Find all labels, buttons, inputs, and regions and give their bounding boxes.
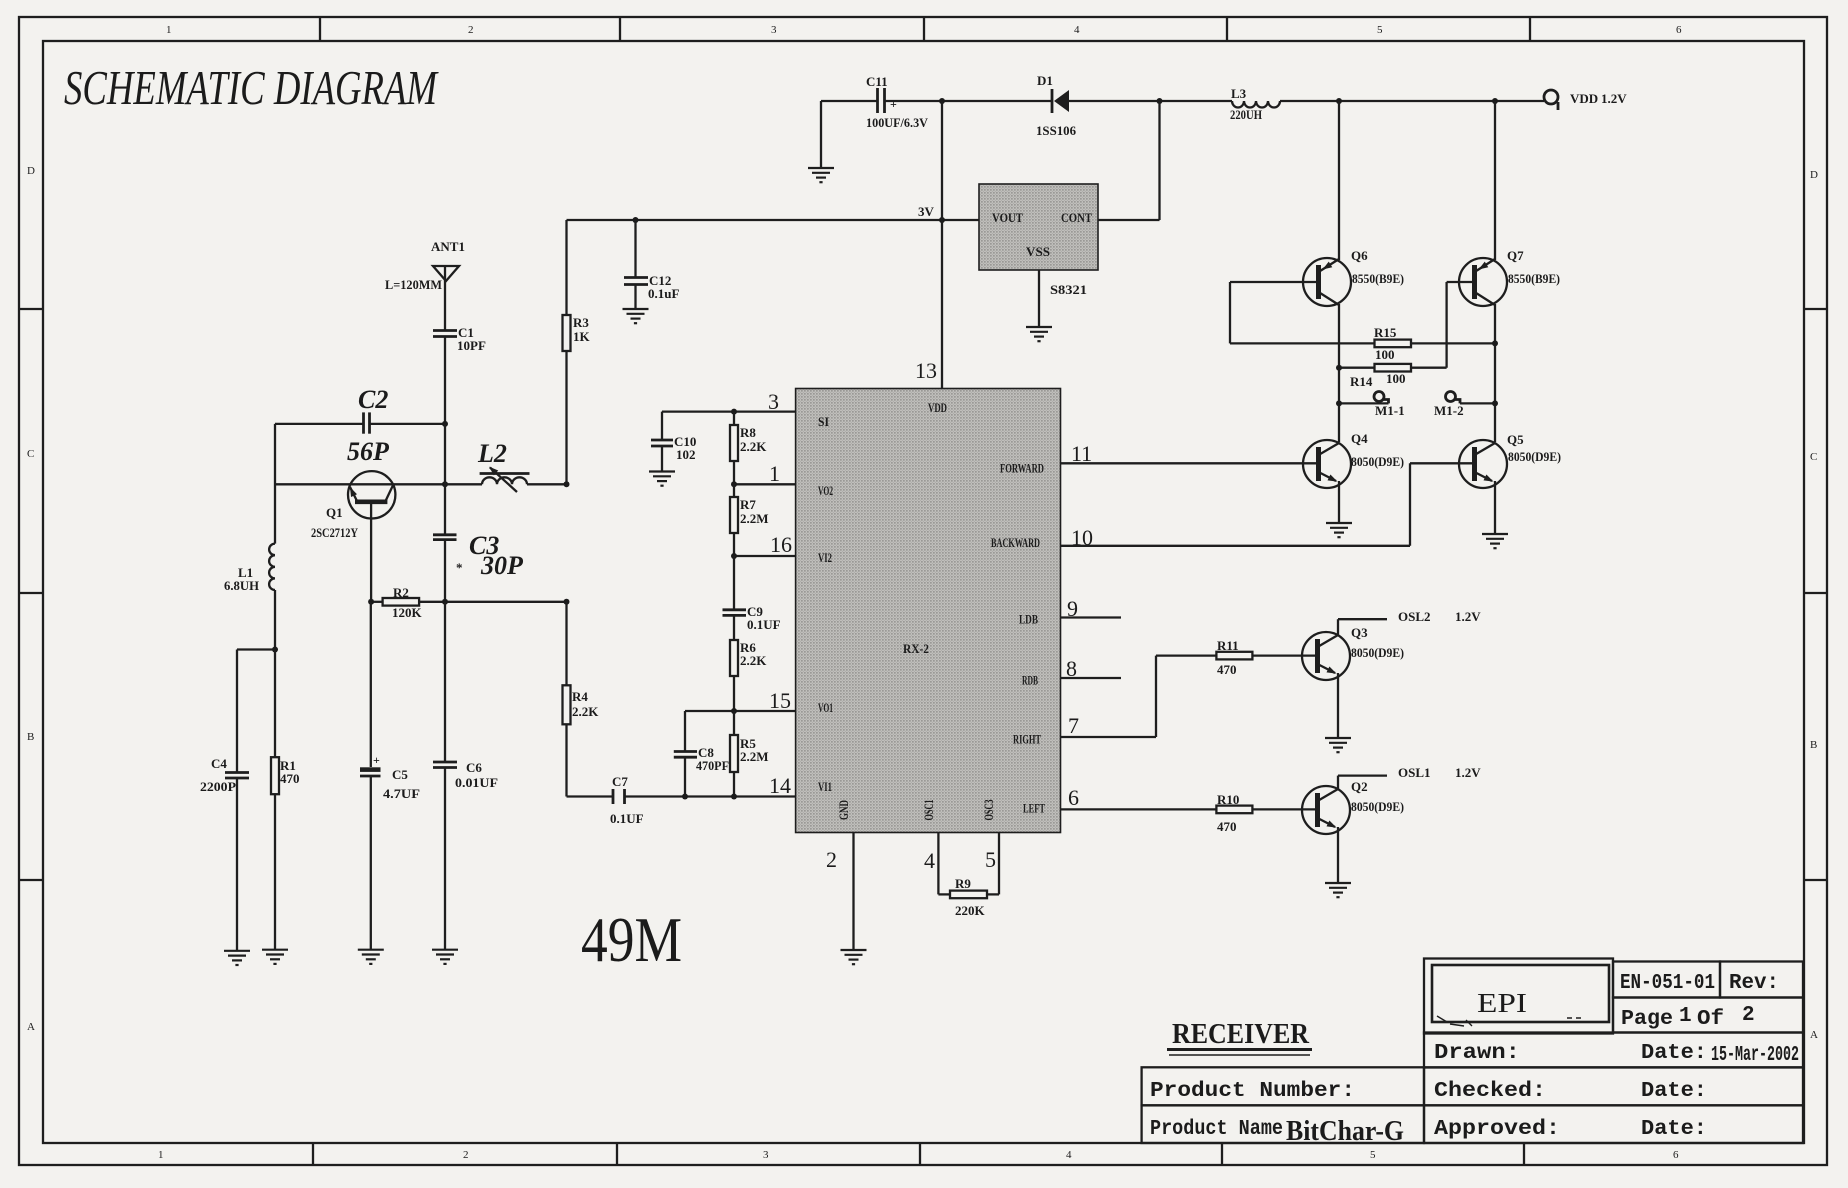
svg-text:A: A <box>1810 1029 1818 1041</box>
svg-text:R14: R14 <box>1350 374 1373 389</box>
resistor R11 470 <box>1156 638 1318 677</box>
terminal M1-2 <box>1434 392 1464 419</box>
wire OSC1 pin 4 <box>924 833 938 895</box>
wire VO2 pin 1 <box>734 461 796 486</box>
svg-text:FORWARD: FORWARD <box>1000 462 1044 476</box>
ground (pin 2) <box>841 950 867 964</box>
junction pin3 / R8 <box>731 409 737 415</box>
wire SI pin 3 <box>662 389 796 414</box>
wire Q2 collector to OSL1 <box>1338 765 1481 790</box>
svg-text:2: 2 <box>1742 1004 1755 1027</box>
svg-text:2: 2 <box>468 24 474 36</box>
svg-text:VDD: VDD <box>1570 91 1598 106</box>
svg-text:RX-2: RX-2 <box>903 641 929 656</box>
junction L2 / R3 <box>564 481 570 487</box>
wire RDB pin 8 stub <box>1061 656 1122 681</box>
svg-text:B: B <box>27 731 34 743</box>
svg-text:2SC2712Y: 2SC2712Y <box>311 525 358 540</box>
svg-text:B: B <box>1810 739 1817 751</box>
svg-text:R10: R10 <box>1217 792 1239 807</box>
page of <box>1621 1004 1755 1031</box>
svg-text:LDB: LDB <box>1019 613 1038 627</box>
ground (Q3 emitter) <box>1325 738 1351 752</box>
inductor L2 (variable) <box>445 439 567 492</box>
wire VI1 pin 14 <box>625 773 796 798</box>
svg-text:VSS: VSS <box>1026 245 1050 259</box>
svg-text:8550(B9E): 8550(B9E) <box>1508 271 1560 286</box>
svg-text:RDB: RDB <box>1022 674 1038 688</box>
resistor R14 100 <box>1339 364 1447 389</box>
wire Q6 collector down <box>1338 304 1340 442</box>
wire FORWARD pin 11 <box>1061 441 1319 466</box>
wire 3V node <box>567 204 980 220</box>
junction R2 / Q1 base <box>368 599 374 605</box>
svg-text:L3: L3 <box>1231 86 1247 101</box>
svg-text:0.1uF: 0.1uF <box>648 286 679 301</box>
svg-text:1: 1 <box>166 24 172 36</box>
svg-text:Drawn:: Drawn: <box>1434 1042 1520 1065</box>
svg-text:C6: C6 <box>466 760 482 775</box>
svg-text:Checked:: Checked: <box>1434 1080 1546 1103</box>
resistor R1 470 <box>271 650 300 950</box>
svg-text:100: 100 <box>1375 347 1395 362</box>
svg-text:0.01UF: 0.01UF <box>455 775 498 790</box>
svg-text:1K: 1K <box>573 329 591 344</box>
ground (C5) <box>358 950 384 964</box>
terminal M1-1 <box>1374 392 1405 419</box>
svg-text:Q4: Q4 <box>1351 431 1368 446</box>
capacitor C10 102 <box>651 412 696 472</box>
svg-text:L2: L2 <box>477 439 507 468</box>
svg-text:0.1UF: 0.1UF <box>747 617 781 632</box>
inductor L1 6.8UH <box>224 424 275 650</box>
svg-text:11: 11 <box>1071 441 1092 466</box>
transistor Q6 8550(B9E) <box>1303 248 1404 306</box>
antenna ANT1 <box>385 239 465 330</box>
svg-text:1SS106: 1SS106 <box>1036 123 1076 138</box>
svg-text:R7: R7 <box>740 497 756 512</box>
svg-text:4: 4 <box>1074 24 1080 36</box>
svg-text:8050(D9E): 8050(D9E) <box>1351 799 1404 814</box>
svg-text:120K: 120K <box>392 605 423 620</box>
svg-text:VO1: VO1 <box>818 701 833 715</box>
transistor Q4 8050(D9E) <box>1303 431 1404 523</box>
junction R2 wire / C3-C6 line <box>442 599 448 605</box>
svg-text:1.2V: 1.2V <box>1455 765 1481 780</box>
svg-text:CONT: CONT <box>1061 211 1093 225</box>
resistor R3 1K <box>563 220 591 484</box>
transistor Q5 8050(D9E) <box>1459 432 1561 534</box>
svg-text:470PF: 470PF <box>696 758 729 773</box>
svg-text:1: 1 <box>158 1149 164 1161</box>
svg-text:Q2: Q2 <box>1351 779 1368 794</box>
svg-text:C: C <box>27 448 34 460</box>
transistor Q2 8050(D9E) <box>1302 779 1404 883</box>
svg-text:Date:: Date: <box>1641 1042 1707 1065</box>
svg-text:LEFT: LEFT <box>1023 802 1045 816</box>
wire VSS to ground <box>1038 270 1040 327</box>
svg-text:Q5: Q5 <box>1507 432 1524 447</box>
wire Q7 collector down <box>1494 304 1496 442</box>
svg-text:C11: C11 <box>866 74 888 89</box>
svg-text:SCHEMATIC DIAGRAM: SCHEMATIC DIAGRAM <box>64 60 439 115</box>
resistor R10 470 <box>1061 792 1318 834</box>
svg-text:8050(D9E): 8050(D9E) <box>1351 454 1404 469</box>
wire rail to RX-2 pin 13 <box>915 101 942 389</box>
svg-text:R4: R4 <box>572 689 588 704</box>
svg-text:R8: R8 <box>740 425 756 440</box>
svg-text:Page: Page <box>1621 1008 1673 1031</box>
svg-text:2.2K: 2.2K <box>572 704 599 719</box>
svg-text:A: A <box>27 1021 35 1033</box>
svg-text:470: 470 <box>280 771 300 786</box>
svg-text:13: 13 <box>915 358 937 383</box>
svg-text:OSL2: OSL2 <box>1398 609 1431 624</box>
product name row <box>1150 1115 1404 1147</box>
wire RIGHT pin 7 <box>1061 656 1157 738</box>
svg-text:7: 7 <box>1068 713 1079 738</box>
wire Q6 emitter to rail <box>1338 101 1340 260</box>
junction pin15 / R6 R5 <box>731 708 737 714</box>
capacitor C12 0.1uF <box>624 220 679 309</box>
svg-text:15-Mar-2002: 15-Mar-2002 <box>1711 1044 1799 1067</box>
junction M1-2 wire <box>1492 400 1498 406</box>
junction pin16 / R7 C9 <box>731 553 737 559</box>
svg-text:Q1: Q1 <box>326 505 343 520</box>
svg-text:VI2: VI2 <box>818 551 832 565</box>
svg-text:S8321: S8321 <box>1050 282 1087 297</box>
wire M1-1 to Q6 collector <box>1339 402 1389 404</box>
junction 3V / VDD-line <box>939 217 945 223</box>
svg-text:10: 10 <box>1071 525 1093 550</box>
ground (Q2 emitter) <box>1325 883 1351 897</box>
svg-text:C: C <box>1810 451 1817 463</box>
resistor R5 2.2M <box>730 711 769 797</box>
svg-text:2.2K: 2.2K <box>740 653 767 668</box>
svg-text:8050(D9E): 8050(D9E) <box>1351 645 1404 660</box>
wire OSC3 pin 5 <box>985 833 999 895</box>
svg-text:Rev:: Rev: <box>1729 972 1779 995</box>
junction pin14 / R5 <box>731 794 737 800</box>
svg-text:8550(B9E): 8550(B9E) <box>1352 271 1404 286</box>
capacitor C9 0.1UF <box>723 556 781 640</box>
ground (C4) <box>224 951 250 965</box>
RECEIVER heading <box>1167 1018 1312 1055</box>
IC U1 RX-2 <box>796 389 1061 833</box>
svg-text:1: 1 <box>769 461 780 486</box>
svg-text:SI: SI <box>818 415 829 429</box>
wire Q3 collector to OSL2 <box>1338 609 1481 636</box>
svg-text:C2: C2 <box>358 385 388 414</box>
svg-text:8050(D9E): 8050(D9E) <box>1508 449 1561 464</box>
svg-text:OSC1: OSC1 <box>922 800 936 821</box>
svg-text:Q6: Q6 <box>1351 248 1368 263</box>
ground (R1) <box>262 950 288 964</box>
wire CONT to rail <box>1098 101 1160 220</box>
svg-text:220K: 220K <box>955 903 986 918</box>
svg-text:L=120MM: L=120MM <box>385 277 442 292</box>
svg-text:8: 8 <box>1066 656 1077 681</box>
title block <box>1142 959 1803 1144</box>
ground (Q5 emitter) <box>1482 534 1508 548</box>
svg-text:3: 3 <box>763 1149 769 1161</box>
svg-text:RECEIVER: RECEIVER <box>1172 1018 1310 1050</box>
svg-text:6: 6 <box>1068 785 1079 810</box>
svg-text:16: 16 <box>770 532 792 557</box>
junction rail / pin13 <box>939 98 945 104</box>
svg-text:4: 4 <box>1066 1149 1072 1161</box>
wire VO1 pin 15 <box>685 688 796 713</box>
wire M1-2 to Q7 collector <box>1460 402 1495 404</box>
transistor Q7 8550(B9E) <box>1459 248 1560 306</box>
checked row <box>1434 1080 1707 1103</box>
ground (S8321 VSS) <box>1026 327 1052 341</box>
svg-text:R9: R9 <box>955 876 971 891</box>
approved row <box>1434 1118 1707 1141</box>
junction R14 / Q6 collector <box>1336 365 1342 371</box>
svg-text:1: 1 <box>1679 1005 1692 1028</box>
junction R2 wire / R3-R4 line <box>564 599 570 605</box>
resistor R15 100 <box>1374 325 1495 362</box>
svg-text:VOUT: VOUT <box>992 211 1024 225</box>
capacitor C3 30P <box>433 424 524 602</box>
svg-text:6.8UH: 6.8UH <box>224 578 259 593</box>
inductor L3 220UH <box>1230 86 1280 122</box>
svg-text:EPI: EPI <box>1477 988 1527 1018</box>
junction pin1 / R8 R7 <box>731 481 737 487</box>
capacitor C11 100UF/6.3V <box>866 74 929 130</box>
svg-text:470: 470 <box>1217 662 1237 677</box>
wire GND pin 2 <box>826 833 854 951</box>
capacitor C2 56P <box>275 385 445 466</box>
svg-text:30P: 30P <box>480 551 524 580</box>
svg-text:Product Name: Product Name <box>1150 1118 1283 1141</box>
svg-text:4.7UF: 4.7UF <box>383 786 420 801</box>
svg-text:4: 4 <box>924 848 935 873</box>
svg-text:R11: R11 <box>1217 638 1239 653</box>
svg-text:9: 9 <box>1067 596 1078 621</box>
wire Q7 emitter to rail <box>1494 101 1496 260</box>
svg-text:C7: C7 <box>612 774 628 789</box>
svg-text:2.2M: 2.2M <box>740 749 769 764</box>
svg-text:EN-051-01: EN-051-01 <box>1620 972 1715 995</box>
svg-text:C4: C4 <box>211 756 227 771</box>
svg-text:6: 6 <box>1673 1149 1679 1161</box>
svg-text:GND: GND <box>837 800 851 820</box>
svg-text:3: 3 <box>768 389 779 414</box>
transistor Q3 8050(D9E) <box>1302 625 1404 738</box>
svg-text:Of: Of <box>1697 1008 1724 1031</box>
transistor Q1 2SC2712Y <box>275 471 445 602</box>
drawn row <box>1434 1042 1799 1067</box>
junction rail / Q6 emitter <box>1336 98 1342 104</box>
ground (C12) <box>623 309 649 323</box>
svg-text:5: 5 <box>985 847 996 872</box>
svg-text:ANT1: ANT1 <box>431 239 465 254</box>
svg-text:OSL1: OSL1 <box>1398 765 1431 780</box>
svg-text:RIGHT: RIGHT <box>1013 733 1041 747</box>
svg-text:3: 3 <box>771 24 777 36</box>
svg-text:2.2M: 2.2M <box>740 511 769 526</box>
capacitor C7 0.1UF <box>567 774 644 826</box>
svg-text:1.2V: 1.2V <box>1601 91 1627 106</box>
svg-text:+: + <box>373 753 380 767</box>
svg-text:OSC3: OSC3 <box>982 800 996 821</box>
svg-text:0.1UF: 0.1UF <box>610 811 644 826</box>
capacitor C6 0.01UF <box>433 602 498 950</box>
resistor R8 2.2K <box>730 412 767 485</box>
svg-text:BACKWARD: BACKWARD <box>991 536 1040 550</box>
svg-text:2: 2 <box>463 1149 469 1161</box>
diode D1 1SS106 <box>1036 73 1076 138</box>
capacitor C4 2200P <box>200 650 275 951</box>
svg-text:5: 5 <box>1377 24 1383 36</box>
svg-text:470: 470 <box>1217 819 1237 834</box>
svg-text:VO2: VO2 <box>818 484 833 498</box>
junction R15 / Q7 collector <box>1492 340 1498 346</box>
capacitor C5 4.7UF <box>360 602 420 950</box>
svg-text:2.2K: 2.2K <box>740 439 767 454</box>
svg-text:VI1: VI1 <box>818 780 832 794</box>
wire LDB pin 9 stub <box>1061 596 1122 621</box>
svg-text:VDD: VDD <box>928 401 947 415</box>
svg-text:BitChar-G: BitChar-G <box>1286 1115 1404 1147</box>
junction 3V / C12 <box>633 217 639 223</box>
terminal VDD 1.2V <box>1544 90 1627 110</box>
IC U2 S8321 <box>979 184 1098 297</box>
svg-text:1.2V: 1.2V <box>1455 609 1481 624</box>
svg-text:220UH: 220UH <box>1230 107 1262 122</box>
svg-text:6: 6 <box>1676 24 1682 36</box>
capacitor C8 470PF <box>674 711 729 797</box>
svg-text:Date:: Date: <box>1641 1118 1707 1141</box>
svg-text:*: * <box>456 560 463 575</box>
junction M1-1 wire <box>1336 400 1342 406</box>
svg-text:102: 102 <box>676 447 696 462</box>
wire Q6 base loop to R15 <box>1230 282 1375 343</box>
svg-text:Date:: Date: <box>1641 1080 1707 1103</box>
wire Q7 base to R14 <box>1447 282 1475 368</box>
ground (C11 left) <box>808 101 834 182</box>
junction L1 / C4 / R1 <box>272 647 278 653</box>
svg-text:100UF/6.3V: 100UF/6.3V <box>866 115 929 130</box>
svg-text:3V: 3V <box>918 204 935 219</box>
svg-text:C5: C5 <box>392 767 408 782</box>
svg-text:R3: R3 <box>573 315 589 330</box>
svg-text:Q7: Q7 <box>1507 248 1524 263</box>
svg-text:14: 14 <box>769 773 791 798</box>
junction C2 / antenna line <box>442 421 448 427</box>
resistor R2 120K <box>371 585 566 620</box>
svg-text:R15: R15 <box>1374 325 1397 340</box>
junction rail / Q7 emitter <box>1492 98 1498 104</box>
svg-text:10PF: 10PF <box>457 338 486 353</box>
resistor R4 2.2K <box>563 602 600 797</box>
resistor R7 2.2M <box>730 484 769 556</box>
svg-text:2: 2 <box>826 847 837 872</box>
svg-text:R2: R2 <box>393 585 409 600</box>
svg-text:100: 100 <box>1386 371 1406 386</box>
junction pin14 / C8 <box>682 794 688 800</box>
ground (C6) <box>432 950 458 964</box>
EPI logo <box>1432 965 1609 1026</box>
svg-text:49M: 49M <box>581 904 682 975</box>
svg-text:15: 15 <box>769 688 791 713</box>
ground (C10) <box>649 472 675 486</box>
junction Q1 collector / C3 line <box>442 481 448 487</box>
wire VI2 pin 16 <box>734 532 796 557</box>
svg-text:M1-2: M1-2 <box>1434 403 1464 418</box>
ground (Q4 emitter) <box>1326 523 1352 537</box>
resistor R9 220K <box>938 876 999 918</box>
wire VDD rail <box>821 100 1544 102</box>
svg-text:56P: 56P <box>347 437 390 466</box>
svg-text:Product Number:: Product Number: <box>1150 1080 1355 1103</box>
wire BACKWARD pin 10 <box>1061 463 1475 550</box>
svg-text:D: D <box>1810 169 1818 181</box>
svg-text:D: D <box>27 165 35 177</box>
svg-text:M1-1: M1-1 <box>1375 403 1405 418</box>
junction rail / CONT <box>1157 98 1163 104</box>
resistor R6 2.2K <box>730 640 767 711</box>
svg-text:D1: D1 <box>1037 73 1053 88</box>
svg-text:Approved:: Approved: <box>1434 1118 1560 1141</box>
svg-text:5: 5 <box>1370 1149 1376 1161</box>
svg-text:Q3: Q3 <box>1351 625 1368 640</box>
svg-text:2200P: 2200P <box>200 779 236 794</box>
svg-text:+: + <box>890 97 897 111</box>
capacitor C1 10PF <box>433 325 486 424</box>
